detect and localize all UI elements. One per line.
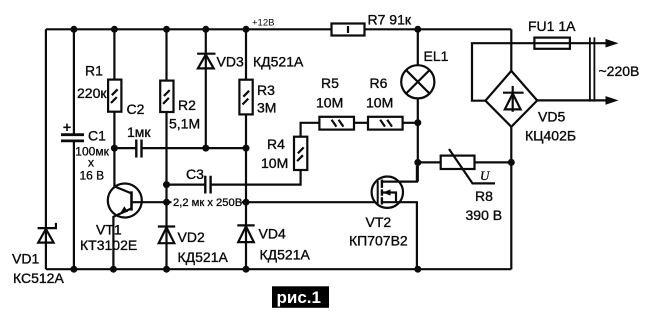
node C2/R1 wire at VD3 <box>202 145 209 152</box>
svg-text:VT1: VT1 <box>96 222 122 238</box>
resistor R4 <box>261 123 319 171</box>
resistor R7 <box>332 11 412 35</box>
node top EL1 <box>414 26 421 33</box>
capacitor C1 <box>61 124 110 183</box>
node bottom C1 <box>70 266 77 273</box>
svg-text:R1: R1 <box>85 63 103 79</box>
wire top bus <box>46 28 511 30</box>
bridge rectifier VD5 <box>485 71 576 144</box>
node top R3 <box>243 26 250 33</box>
label C3 value over wire <box>172 196 243 209</box>
wire left rail <box>45 29 47 269</box>
svg-text:VD3: VD3 <box>217 54 244 70</box>
arrow bottom output <box>606 96 619 105</box>
svg-text:R2: R2 <box>178 97 196 113</box>
wire bridge left to fuse <box>472 43 534 100</box>
node top C1 <box>70 26 77 33</box>
svg-text:EL1: EL1 <box>424 48 449 64</box>
svg-text:10М: 10М <box>366 95 393 111</box>
transistor VT2 <box>349 166 417 269</box>
node base at R2 rail <box>163 199 170 206</box>
svg-text:VT2: VT2 <box>366 214 392 230</box>
mains double line <box>590 37 595 101</box>
svg-text:VD5: VD5 <box>538 109 565 125</box>
node bottom VT2 source <box>414 266 421 273</box>
zener VD1 <box>12 223 64 286</box>
svg-text:рис.1: рис.1 <box>277 288 321 307</box>
svg-text:FU1 1А: FU1 1А <box>528 18 576 34</box>
svg-text:2,2 мк х 250В: 2,2 мк х 250В <box>173 197 242 209</box>
wire right rail (bridge bottom to bottom bus) <box>510 127 512 269</box>
node R1/C2 <box>111 145 118 152</box>
svg-text:КТ3102Е: КТ3102Е <box>80 237 137 253</box>
node top VD3 <box>202 26 209 33</box>
capacitor C3 <box>167 166 301 194</box>
wire R3 rail down <box>245 114 247 225</box>
wire base/gate bus <box>132 201 378 203</box>
node top R2 <box>163 26 170 33</box>
varistor R8 <box>418 149 512 223</box>
wire C1 rail <box>73 29 75 269</box>
resistor R3 <box>239 29 276 115</box>
node bottom VT1 emitter <box>110 266 117 273</box>
fuse FU1 <box>528 18 613 49</box>
svg-text:КЦ402Б: КЦ402Б <box>525 128 576 144</box>
capacitor C2 <box>114 101 246 158</box>
svg-text:16 В: 16 В <box>80 169 105 183</box>
svg-text:VD2: VD2 <box>178 229 205 245</box>
svg-text:390 В: 390 В <box>466 207 503 223</box>
figure label рис.1 <box>272 286 329 308</box>
svg-text:10М: 10М <box>316 95 343 111</box>
node bottom VD4 <box>243 266 250 273</box>
node EL1/R8/VT2 drain <box>414 159 421 166</box>
svg-text:5,1М: 5,1М <box>169 116 200 132</box>
wire bridge right output <box>537 99 612 101</box>
svg-text:C2: C2 <box>127 101 145 117</box>
node R8 right <box>508 159 515 166</box>
svg-text:+12В: +12В <box>252 18 274 29</box>
resistor R5 <box>316 75 368 130</box>
svg-text:220к: 220к <box>77 85 107 101</box>
svg-text:1мк: 1мк <box>127 124 151 140</box>
svg-text:R8: R8 <box>475 188 493 204</box>
svg-text:х: х <box>88 156 94 170</box>
wire bottom bus <box>46 268 511 270</box>
resistor R2 <box>160 29 200 131</box>
svg-text:R7 91к: R7 91к <box>368 11 412 27</box>
node C2 wire at R3 <box>243 145 250 152</box>
svg-text:КС512А: КС512А <box>13 270 64 286</box>
resistor R1 <box>77 29 121 186</box>
wire top-right vertical to bridge top <box>510 29 512 71</box>
node C3 left <box>163 181 170 188</box>
resistor R6 <box>366 75 418 130</box>
node EL1/R6 <box>414 119 421 126</box>
svg-text:10М: 10М <box>261 155 288 171</box>
svg-text:C1: C1 <box>88 128 106 144</box>
svg-text:КД521А: КД521А <box>260 247 311 263</box>
svg-text:U: U <box>480 168 491 183</box>
svg-text:R6: R6 <box>370 75 388 91</box>
diode VD4 <box>237 225 310 269</box>
svg-text:R5: R5 <box>321 75 339 91</box>
diode VD2 <box>158 226 229 269</box>
node bottom VD2 <box>163 266 170 273</box>
node top R1 <box>111 26 118 33</box>
lamp EL1 <box>401 29 448 181</box>
node gate at R3 rail <box>243 199 250 206</box>
svg-text:3М: 3М <box>257 100 276 116</box>
svg-text:R3: R3 <box>257 82 275 98</box>
svg-text:VD1: VD1 <box>12 251 39 267</box>
svg-text:КП707В2: КП707В2 <box>349 233 408 249</box>
svg-text:~220В: ~220В <box>599 63 640 79</box>
svg-text:КД521А: КД521А <box>253 54 304 70</box>
svg-text:КД521А: КД521А <box>178 249 229 265</box>
transistor VT1 <box>80 184 142 270</box>
diode VD3 <box>197 29 304 148</box>
svg-text:VD4: VD4 <box>259 226 286 242</box>
svg-text:C3: C3 <box>186 166 204 182</box>
wire R2 rail down <box>165 112 167 226</box>
arrow top output <box>606 39 619 48</box>
svg-text:R4: R4 <box>267 136 285 152</box>
